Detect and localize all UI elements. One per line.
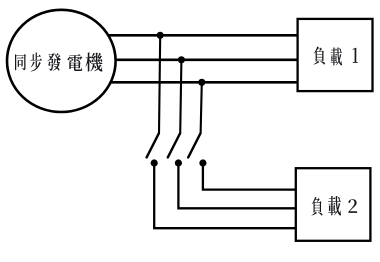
wire W2 (middle phase from generator to Load 1) xyxy=(96,58,299,61)
load box (Load 1) xyxy=(298,19,373,91)
label 負載 2 (Load 2) xyxy=(311,196,357,215)
node C (junction dot on wire W3) xyxy=(198,79,205,86)
switch S3 lower contact dot xyxy=(199,159,206,166)
label 負載 1 (Load 1) xyxy=(314,46,359,65)
node A (junction dot on wire W1) xyxy=(157,32,164,39)
load box (Load 2) xyxy=(296,168,371,241)
node B (junction dot on wire W2) xyxy=(178,56,185,63)
switch S3 blade (open knife-switch arm) xyxy=(188,133,200,157)
wire (vertical drop from node A to switch S1) xyxy=(159,35,160,134)
wire (from switch S3 contact down and right to Load 2) xyxy=(203,163,297,190)
label 同步發電機 (synchronous generator) xyxy=(15,53,103,72)
switch S1 lower contact dot xyxy=(151,159,158,166)
generator circle (synchronous generator) xyxy=(7,10,116,112)
switch S2 lower contact dot xyxy=(175,159,182,166)
wire (from switch S1 contact down and right to Load 2) xyxy=(154,163,297,228)
wire W1 (top phase from generator to Load 1) xyxy=(96,34,299,37)
wire (vertical drop from node C to switch S3) xyxy=(201,82,202,134)
switch S2 blade (open knife-switch arm) xyxy=(168,133,180,157)
wire W3 (bottom phase from generator to Load 1) xyxy=(96,81,299,84)
wire (from switch S2 contact down and right to Load 2) xyxy=(178,163,297,208)
wire (vertical drop from node B to switch S2) xyxy=(180,60,181,134)
switch S1 blade (open knife-switch arm) xyxy=(147,133,159,157)
